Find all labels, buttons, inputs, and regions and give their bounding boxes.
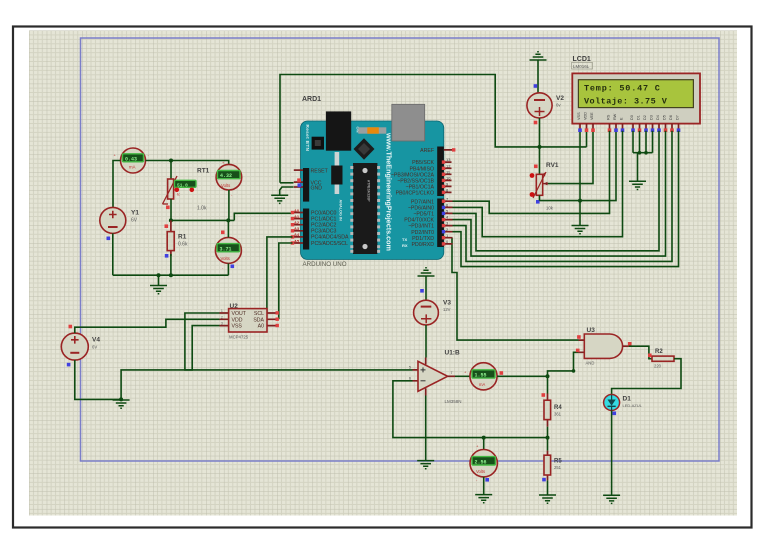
wire [227,263,229,275]
svg-text:LCD1: LCD1 [573,56,591,63]
svg-text:AREF: AREF [420,148,434,154]
svg-text:PC1/ADC1: PC1/ADC1 [311,216,336,222]
svg-text:A1: A1 [294,214,300,219]
wire [112,233,114,275]
svg-text:LM358N: LM358N [445,399,462,404]
svg-text:6: 6 [409,376,411,380]
wire feedback [393,381,548,438]
led D1 [604,395,643,416]
wire [170,161,172,180]
svg-text:RS: RS [607,114,611,120]
battery V4 [61,325,100,367]
wire [146,161,229,165]
wire V4 to VDD [75,319,220,333]
svg-text:D6: D6 [669,115,673,120]
svg-text:VSS: VSS [232,324,243,330]
svg-text:6V: 6V [131,218,138,224]
ammeter AM1 [114,148,150,173]
wire V4 minus [75,360,121,399]
ground [603,495,620,503]
svg-text:Reset BTN: Reset BTN [305,125,310,152]
svg-text:7: 7 [451,371,453,375]
svg-text:0.43: 0.43 [125,156,137,162]
svg-text:ARDUINO UNO: ARDUINO UNO [303,261,347,268]
wire [497,375,547,377]
wire R2 to D1 [612,359,681,395]
svg-text:U1:B: U1:B [445,350,460,357]
svg-text:D7: D7 [676,115,680,120]
svg-text:10k: 10k [546,206,554,211]
junction [546,436,550,440]
svg-text:10: 10 [446,176,451,181]
ground [150,275,167,294]
svg-text:RT1: RT1 [197,168,210,175]
svg-text:Y1: Y1 [131,210,139,217]
svg-text:PC3/ADC3: PC3/ADC3 [311,229,336,235]
svg-text:2.56: 2.56 [475,460,487,466]
ground [572,226,589,234]
svg-text:LM016L: LM016L [573,64,590,69]
voltmeter VM1 [216,160,242,198]
svg-text:A4: A4 [294,232,300,237]
ammeter AM2 [470,363,497,390]
svg-text:D1: D1 [637,115,641,120]
svg-text:PB0/ICP1/CLKO: PB0/ICP1/CLKO [396,191,434,197]
svg-text:PC5/ADC5/SCL: PC5/ADC5/SCL [311,241,348,247]
wire [611,411,613,495]
svg-text:R4: R4 [554,405,562,411]
wire [539,147,541,174]
arduino ARD1 [291,96,456,268]
junction [119,397,123,401]
wire A4 to SCL [267,237,293,313]
svg-text:ARD1: ARD1 [302,96,321,103]
svg-text:12V: 12V [443,307,451,312]
wire D4 [453,131,660,251]
svg-text:PC4/ADC4/SDA: PC4/ADC4/SDA [311,235,349,241]
svg-text:GND: GND [311,185,323,191]
svg-text:251: 251 [554,465,562,470]
battery V2 [527,93,564,124]
wire VDD column [586,131,588,147]
thermistor RT1 [163,168,210,212]
potentiometer RV1 [530,162,559,211]
resistor R5 [542,438,562,482]
wire RS [453,131,610,214]
battery Y1 [100,207,140,240]
wire [455,375,470,377]
wire D7 [453,131,679,267]
dac U2 [220,303,279,339]
svg-text:VEE: VEE [590,112,594,120]
wire [579,201,581,226]
svg-text:A0: A0 [294,208,300,213]
wire ground rail [113,274,229,276]
svg-text:mA: mA [129,165,136,170]
svg-text:RW: RW [613,113,617,120]
wire TX to U3 [452,238,579,340]
svg-text:LED-AZUL: LED-AZUL [623,403,643,408]
svg-text:Volts: Volts [221,256,230,261]
svg-text:tc: tc [177,193,180,197]
battery V3 [414,299,452,325]
svg-text:A3: A3 [294,226,300,231]
junction [538,145,542,149]
wire [547,427,549,438]
svg-text:220: 220 [654,363,662,368]
svg-text:VDD: VDD [584,112,588,120]
wire [170,254,172,275]
ground [629,181,646,189]
wire [228,190,230,220]
svg-text:Volts: Volts [476,469,485,474]
and-gate U3 [576,327,632,366]
wire to A0 [234,213,292,220]
svg-text:V2: V2 [556,95,564,102]
wire to U3 inB [548,352,579,376]
svg-text:R2: R2 [655,349,663,355]
svg-text:RESET: RESET [311,168,329,174]
svg-text:ATMEGA328P: ATMEGA328P [366,180,370,202]
svg-text:A0: A0 [258,324,264,330]
svg-text:D3: D3 [650,115,654,120]
svg-text:mA: mA [479,382,485,387]
svg-text:MCP4725: MCP4725 [229,334,249,339]
wire U3 out to R2 [629,346,652,359]
svg-text:Voltaje: 3.75 V: Voltaje: 3.75 V [584,96,668,106]
svg-text:6V: 6V [92,345,97,350]
junction [546,374,550,378]
wire GND jog [280,187,294,195]
svg-text:RV1: RV1 [546,162,559,169]
op-amp U1:B [409,350,462,404]
wire [280,182,294,184]
svg-text:D2: D2 [643,115,647,120]
svg-text:D4: D4 [656,115,660,120]
ground [417,461,434,469]
svg-text:PC0/ADC0: PC0/ADC0 [311,210,336,216]
svg-text:3.71: 3.71 [220,246,232,252]
wire [547,480,549,494]
wire VOUT to opamp [185,313,413,370]
wire [539,118,541,147]
ground [113,400,130,408]
svg-text:~PD5/T1: ~PD5/T1 [413,212,434,218]
resistor R4 [542,376,563,426]
lcd LCD1 [572,56,701,132]
svg-text:2: 2 [221,315,223,319]
svg-text:V3: V3 [443,299,451,306]
svg-text:1: 1 [221,309,223,313]
ground [271,195,288,203]
svg-text:3: 3 [221,322,223,326]
wire [539,195,541,200]
wire [425,325,427,358]
svg-text:12: 12 [446,163,451,168]
svg-text:1.0k: 1.0k [197,206,207,212]
svg-text:4.32: 4.32 [220,173,232,179]
svg-text:R1: R1 [178,234,187,241]
wire A5 to SDA [279,243,293,319]
svg-text:RX: RX [402,243,408,248]
wire RW rail [540,131,617,201]
svg-text:0.6k: 0.6k [178,242,188,248]
ground [539,495,556,503]
svg-text:www.TheEngineeringProjects.com: www.TheEngineeringProjects.com [384,132,393,251]
svg-text:AND: AND [586,361,595,366]
svg-text:SDA: SDA [253,317,264,323]
wire VSS to ground [121,326,219,400]
svg-text:VOUT: VOUT [232,311,247,317]
wire [113,161,121,208]
svg-text:13: 13 [446,157,451,162]
sheet border [81,38,720,461]
svg-text:51.0: 51.0 [177,182,188,188]
svg-text:D0: D0 [630,115,634,120]
svg-text:VDD: VDD [232,317,243,323]
wire D0-D3 tie [633,131,653,181]
svg-text:Volts: Volts [221,183,230,188]
junction [169,159,173,163]
svg-text:1.55: 1.55 [475,373,487,379]
svg-text:PB5/SCK: PB5/SCK [412,160,434,166]
svg-text:PC2/ADC2: PC2/ADC2 [311,223,336,229]
svg-text:Temp: 50.47 C: Temp: 50.47 C [584,84,661,94]
svg-text:ANALOG IN: ANALOG IN [339,200,343,222]
voltmeter VM2 [215,231,241,271]
svg-text:PD0/RXD: PD0/RXD [412,242,435,248]
svg-text:TX: TX [402,237,407,242]
svg-text:5: 5 [409,366,411,370]
wire opamp gnd [425,396,427,461]
wire node [171,219,234,221]
svg-text:D5: D5 [663,115,667,120]
wire [227,220,229,237]
wire D5 [453,131,666,256]
svg-text:R5: R5 [554,458,562,464]
svg-text:U3: U3 [587,327,596,334]
svg-text:A2: A2 [294,220,300,225]
svg-text:V4: V4 [92,337,100,344]
svg-text:SCL: SCL [254,311,264,317]
svg-text:361: 361 [554,411,562,416]
wire VSS column [579,131,581,201]
ground [475,495,492,503]
svg-text:~PD3/INT1: ~PD3/INT1 [408,224,434,230]
wire [170,199,172,220]
wire [483,477,485,494]
svg-text:VSS: VSS [577,112,581,120]
resistor R2 [648,349,674,368]
voltmeter VM3 [470,438,497,482]
wire wiper to VEE [548,131,593,184]
svg-text:D1: D1 [623,396,632,403]
ground [530,52,547,93]
wire D6 [453,131,673,262]
svg-text:~PB3/MOSI/OC2A: ~PB3/MOSI/OC2A [391,172,435,178]
svg-text:A5: A5 [294,238,300,243]
ground [418,268,435,300]
svg-text:PD1/TXD: PD1/TXD [412,236,434,242]
svg-text:PD7/AIN1: PD7/AIN1 [411,199,434,205]
wire E [453,131,623,237]
resistor R1 [165,220,188,257]
junction [482,436,486,440]
wire 5V rail [280,75,587,183]
